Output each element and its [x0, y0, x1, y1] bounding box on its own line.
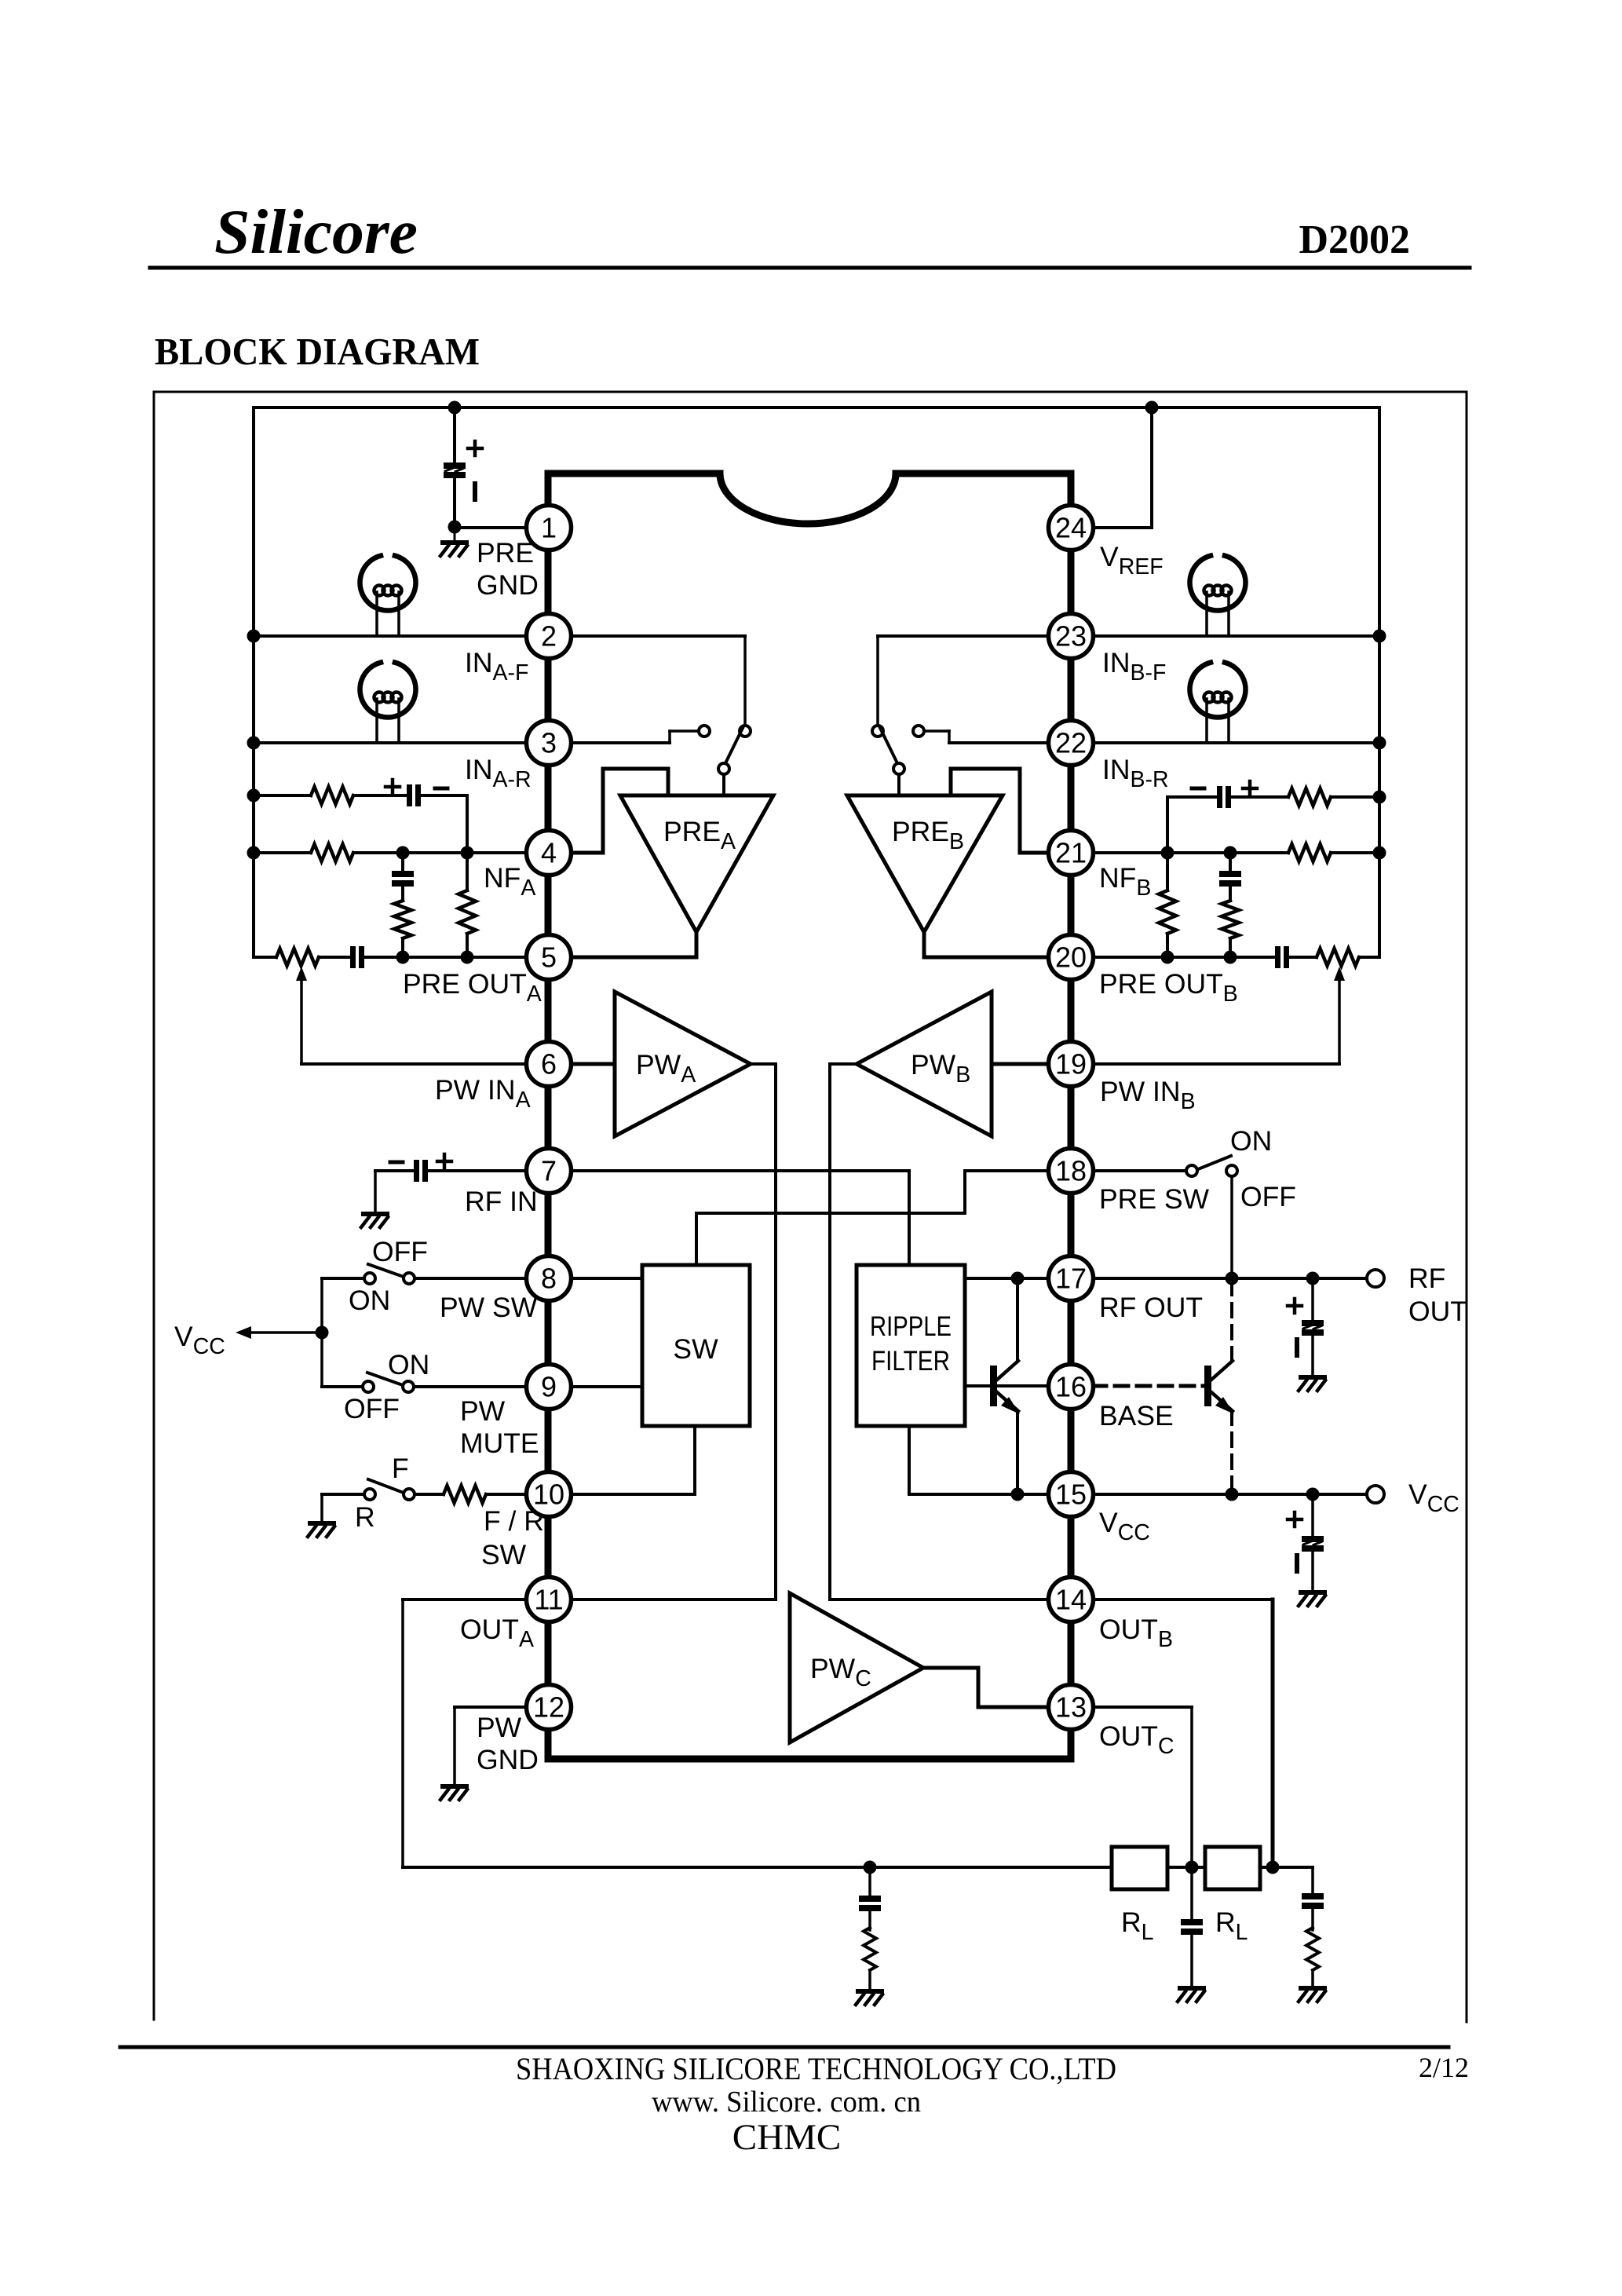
svg-text:15: 15	[1055, 1479, 1087, 1511]
svg-text:SHAOXING SILICORE TECHNOLOGY C: SHAOXING SILICORE TECHNOLOGY CO.,LTD	[516, 2051, 1116, 2086]
svg-text:1: 1	[541, 512, 557, 544]
svg-text:22: 22	[1055, 727, 1087, 759]
svg-text:R: R	[355, 1501, 375, 1533]
svg-text:6: 6	[541, 1048, 557, 1080]
svg-text:RIPPLE: RIPPLE	[870, 1311, 952, 1342]
svg-text:F / R: F / R	[484, 1505, 544, 1537]
svg-text:4: 4	[541, 837, 557, 869]
svg-text:2/12: 2/12	[1419, 2052, 1469, 2083]
svg-text:OFF: OFF	[372, 1236, 428, 1267]
svg-text:11: 11	[534, 1584, 563, 1616]
svg-text:PW: PW	[477, 1712, 522, 1743]
svg-text:OFF: OFF	[344, 1393, 400, 1424]
svg-text:D2002: D2002	[1299, 218, 1410, 262]
svg-text:20: 20	[1055, 941, 1087, 974]
svg-text:OFF: OFF	[1240, 1181, 1296, 1212]
svg-text:MUTE: MUTE	[460, 1428, 539, 1459]
svg-text:RF: RF	[1408, 1263, 1445, 1294]
svg-text:RF OUT: RF OUT	[1099, 1292, 1203, 1323]
svg-text:18: 18	[1055, 1155, 1087, 1187]
svg-text:2: 2	[541, 620, 557, 653]
svg-text:ON: ON	[388, 1349, 429, 1380]
svg-text:ON: ON	[1230, 1125, 1272, 1157]
svg-text:13: 13	[1055, 1691, 1087, 1724]
svg-text:12: 12	[533, 1691, 564, 1724]
svg-text:17: 17	[1055, 1263, 1087, 1295]
svg-text:9: 9	[541, 1371, 557, 1403]
svg-text:PW: PW	[460, 1395, 506, 1427]
svg-text:16: 16	[1055, 1371, 1087, 1403]
svg-text:BLOCK DIAGRAM: BLOCK DIAGRAM	[155, 330, 480, 373]
svg-text:RF IN: RF IN	[465, 1186, 538, 1217]
svg-text:23: 23	[1055, 620, 1087, 653]
svg-text:www. Silicore. com. cn: www. Silicore. com. cn	[652, 2086, 921, 2119]
svg-text:3: 3	[541, 727, 557, 759]
svg-text:7: 7	[541, 1155, 557, 1187]
svg-text:PW SW: PW SW	[440, 1292, 538, 1323]
svg-text:PRE: PRE	[477, 537, 534, 569]
svg-text:14: 14	[1055, 1584, 1087, 1616]
svg-text:8: 8	[541, 1263, 557, 1295]
svg-text:OUT: OUT	[1408, 1296, 1467, 1327]
svg-text:BASE: BASE	[1099, 1400, 1174, 1431]
svg-text:5: 5	[541, 941, 557, 974]
svg-text:FILTER: FILTER	[871, 1346, 950, 1377]
svg-text:GND: GND	[477, 1744, 539, 1775]
svg-text:SW: SW	[481, 1539, 527, 1570]
svg-text:ON: ON	[349, 1285, 390, 1316]
svg-text:Silicore: Silicore	[214, 196, 418, 267]
svg-text:24: 24	[1055, 512, 1087, 544]
svg-text:CHMC: CHMC	[732, 2117, 841, 2158]
svg-text:21: 21	[1055, 837, 1087, 869]
svg-text:PRE SW: PRE SW	[1099, 1183, 1210, 1215]
svg-text:GND: GND	[477, 569, 539, 601]
svg-text:19: 19	[1055, 1048, 1087, 1080]
svg-text:SW: SW	[673, 1333, 718, 1365]
svg-text:F: F	[392, 1453, 409, 1484]
